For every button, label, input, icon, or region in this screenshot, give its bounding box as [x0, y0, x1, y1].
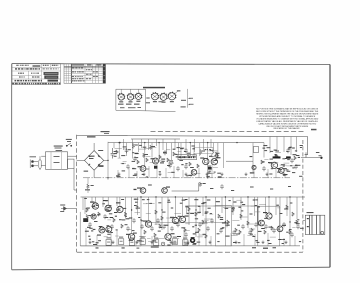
node 2 label — [134, 189, 137, 190]
trimmer RT6 — [172, 239, 177, 245]
ground symbols row lower — [88, 241, 91, 244]
wire bridge lower drop — [87, 178, 89, 193]
tube diagram top wire — [116, 88, 146, 90]
tube diagram left enclosure — [116, 89, 176, 112]
title block row5 dense text — [15, 80, 17, 82]
wire transformer to chassis — [68, 156, 77, 190]
tube diagram connecting leads — [121, 89, 138, 93]
small capacitors scattered upper band — [163, 150, 167, 155]
bridge rectifier CR101 diamond — [85, 151, 104, 171]
wire mid horizontal link — [185, 205, 258, 207]
small capacitors scattered lower band — [88, 222, 92, 227]
transistor Q113 — [91, 214, 96, 219]
transistor Q118 — [165, 234, 171, 240]
transistor Q116 — [145, 221, 151, 227]
tube socket V2 — [127, 94, 133, 100]
wire page frame bottom border — [12, 267, 330, 270]
speaker terminal — [321, 231, 324, 234]
resistor R103 — [132, 143, 135, 148]
jack J101 — [305, 153, 308, 158]
part number callout box — [178, 155, 197, 160]
transistor Q101 — [153, 158, 159, 164]
trimmer RT7 — [183, 240, 188, 246]
gap band resistor R117 — [199, 182, 202, 187]
label above chassis top — [101, 131, 110, 132]
dual transistor Q114 — [99, 227, 105, 233]
notes text block — [256, 108, 319, 131]
wire vertical drops upper band — [108, 137, 297, 180]
wire page frame right border — [329, 65, 331, 268]
wire gap band link — [172, 183, 199, 191]
dark component under Q103 — [208, 167, 212, 170]
wire page frame left border — [11, 64, 13, 270]
wire lower horizontal link — [145, 221, 230, 223]
transistor Q103 — [203, 158, 209, 164]
title block row1 right cells — [43, 65, 44, 66]
tube socket V4 — [152, 93, 159, 100]
tube socket V5 — [160, 94, 167, 101]
component cluster labels upper band — [160, 162, 164, 163]
title block row1 model number text — [16, 65, 19, 66]
transistor Q108 — [271, 162, 277, 168]
gap band labels — [148, 185, 152, 186]
wire link sparse zone — [226, 160, 253, 162]
trimmer RT3 — [129, 240, 134, 246]
transistor Q110 — [92, 203, 98, 209]
alignment point E1 — [161, 242, 164, 245]
tube V6 callout — [175, 92, 178, 94]
trimmer RT4 — [140, 239, 145, 245]
tube diagram middle symbols — [146, 98, 149, 99]
wire B+ bus upper — [131, 138, 180, 140]
capacitor C107 — [214, 154, 219, 158]
phone jack J103 dark circle — [190, 238, 195, 243]
transistor Q112 — [117, 206, 123, 212]
transistor Q111 — [105, 205, 111, 211]
wire B+ bus — [108, 142, 264, 144]
IF transformer black core T104 — [286, 156, 291, 158]
driver shield box — [215, 206, 231, 246]
second callout box — [194, 147, 213, 153]
driver sub box — [187, 206, 201, 213]
dual transistor Q115 — [106, 226, 112, 232]
gap band capacitor C113 — [220, 184, 224, 189]
wire output to jack J101 — [301, 157, 320, 159]
potentiometer R111 — [211, 152, 215, 157]
notes block signature mark — [311, 129, 317, 131]
wire lower ground bus — [81, 245, 301, 247]
label TP101 — [87, 136, 96, 137]
AC plug P101 — [31, 160, 34, 163]
wire bridge connections — [77, 143, 108, 178]
transistor Q122 — [259, 220, 265, 226]
dense labels right upper cluster — [263, 148, 266, 149]
tube diagram left captions — [118, 104, 124, 105]
capacitor C105 — [125, 148, 129, 153]
wire vertical drops lower band — [83, 197, 297, 246]
title block column dividers — [29, 64, 51, 85]
component cluster labels lower band — [126, 218, 130, 219]
transistor Q117 — [128, 234, 134, 240]
coupling network C109 — [254, 147, 259, 153]
transistor Q120 — [179, 216, 185, 222]
transistor Q123 — [277, 226, 283, 232]
bridge rectifier diode marks — [89, 156, 100, 166]
electrolytic C115 dark — [83, 218, 88, 222]
inner solid boundary top — [77, 135, 308, 155]
chassis outer dashed boundary left — [76, 135, 78, 252]
tube diagram header label — [143, 87, 165, 89]
title block approval stamp patch — [44, 72, 59, 75]
revision table dark header band — [64, 66, 106, 69]
title block row3 cells — [18, 73, 20, 74]
power transformer T101 — [46, 152, 68, 170]
resistor R121 — [86, 214, 89, 219]
power switch S101 — [66, 145, 68, 147]
trimmer RT5 — [154, 240, 159, 246]
revision table cell entries — [72, 67, 74, 70]
transistor Q109 — [279, 168, 285, 174]
title block bottom bar — [12, 83, 14, 85]
revision table horizontals — [64, 67, 106, 81]
input jack J102 — [61, 207, 77, 211]
transistor Q105 — [191, 170, 197, 176]
title block row2 manufacturer text — [15, 68, 17, 69]
terminal strip TB101 — [68, 159, 75, 168]
wire lower supply bus — [81, 196, 306, 198]
transistor Q124 small — [252, 165, 256, 169]
dense labels lower-left cluster — [92, 215, 95, 216]
fuse F101 — [39, 160, 41, 169]
svg-text:INDICATED BY THE MAKER: INDICATED BY THE MAKER — [274, 127, 300, 130]
short horizontal wire stubs upper band — [115, 148, 296, 174]
chassis outer dashed boundary top — [151, 130, 305, 132]
IF transformer black core T103 — [273, 156, 281, 158]
junction node A — [119, 142, 121, 144]
bottom boundary label — [151, 246, 159, 247]
tube socket V3 — [135, 94, 141, 100]
wire mid ground bus (dash-dot) — [83, 177, 290, 179]
tube socket V1 — [118, 94, 124, 100]
chassis outer dashed boundary right — [302, 140, 304, 252]
short horizontal wire stubs lower band — [104, 200, 296, 241]
transistor Q104 — [211, 159, 217, 165]
tube diagram right bracket — [188, 89, 191, 108]
wire risers lower band to ground bus — [86, 228, 295, 246]
output stage box — [258, 206, 280, 246]
inner shield box lower-left — [80, 212, 141, 246]
title block row4 cells — [19, 76, 21, 77]
revision table heavy vertical — [70, 64, 72, 84]
resistor R101 below bridge — [87, 184, 90, 189]
transistor Q102 — [140, 166, 146, 172]
revision table dark right column — [103, 64, 106, 84]
wire plug to transformer — [40, 156, 46, 170]
tube socket V6 — [168, 93, 175, 100]
wire stubs through bottom boundary — [96, 247, 99, 248]
interstage transistor Q107 — [162, 188, 168, 194]
transistor Q119 — [172, 217, 178, 223]
trimmer RT1 — [106, 240, 111, 246]
revision table verticals — [66, 64, 102, 84]
filter capacitor C101 — [111, 148, 115, 159]
small resistors scattered lower band — [124, 212, 127, 216]
tube diagram right captions — [159, 101, 164, 102]
small resistors scattered upper band — [116, 150, 119, 154]
wire risers upper band to mid bus — [118, 164, 285, 178]
resistor R107 — [150, 145, 153, 149]
bridge rectifier labels — [89, 156, 95, 157]
chassis outer dashed boundary bottom — [77, 251, 303, 253]
dark label block L101 — [154, 166, 157, 169]
interstage transistor Q106 — [140, 188, 146, 194]
revision table frame — [64, 64, 106, 84]
wire page frame top border — [12, 63, 330, 66]
title block frame — [12, 64, 61, 85]
output transformer T105 — [305, 215, 325, 234]
horizontal resistor R113 — [169, 162, 174, 165]
trimmer RT2 — [119, 239, 124, 245]
transistor Q121 — [266, 213, 272, 219]
junction dots B+ bus — [107, 142, 290, 223]
ground symbols row upper — [117, 173, 120, 176]
title block row lines — [12, 67, 61, 82]
labels below output box — [252, 247, 256, 248]
output stage box heavy edge — [257, 206, 259, 224]
resistor R105 — [143, 153, 146, 157]
resistor R109 — [200, 149, 203, 154]
dense labels lower mid top row — [142, 199, 145, 200]
